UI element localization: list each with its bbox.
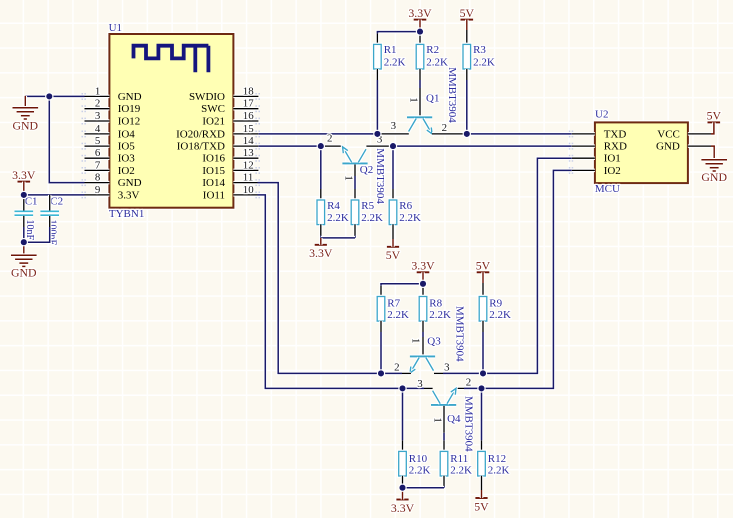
svg-text:R9: R9 <box>489 298 502 310</box>
wire 3.3V to R1 top <box>377 32 420 34</box>
wire R9 bottom to bus <box>481 321 485 332</box>
wire R1 to TXD bus <box>376 69 380 80</box>
wire 5V to R3 top <box>465 20 469 30</box>
wire R10 bottom <box>401 476 405 486</box>
svg-text:2: 2 <box>442 122 447 134</box>
svg-text:IO5: IO5 <box>118 141 136 153</box>
capacitor C1 <box>15 211 34 215</box>
svg-text:8: 8 <box>95 172 101 184</box>
power port 5V (U2 VCC) <box>707 109 722 123</box>
svg-text:3.3V: 3.3V <box>118 189 140 201</box>
wire C1 top lead <box>22 195 26 211</box>
U1 pin 4 (IO4) <box>82 123 136 140</box>
wire R4 bottom <box>319 224 323 235</box>
wire R4 top to bus <box>319 146 323 189</box>
capacitor C2 <box>40 211 59 215</box>
resistor R8 <box>419 297 427 322</box>
svg-text:2.2K: 2.2K <box>361 212 383 224</box>
svg-text:2: 2 <box>327 133 332 145</box>
U2 pin VCC <box>657 128 711 140</box>
resistor R10 <box>399 451 407 476</box>
U1 pin 6 (IO3) <box>82 147 136 164</box>
U1 pin 18 (SWDIO) <box>189 85 260 102</box>
resistor R12 <box>478 451 486 476</box>
R2 labels <box>426 44 448 69</box>
svg-text:1: 1 <box>410 338 422 343</box>
wire R3 to TXD bus <box>465 69 469 80</box>
wire 3.3V to R2 top <box>418 32 422 34</box>
transistor Q2 (MMBT3904) <box>342 147 367 164</box>
ground symbol (U1 pins 1/8) <box>13 96 39 132</box>
svg-text:10: 10 <box>243 184 254 196</box>
R1 labels <box>384 44 406 69</box>
svg-text:IO2: IO2 <box>604 165 621 177</box>
wire 5V to R9 top <box>481 272 485 283</box>
svg-text:RXD: RXD <box>604 141 627 153</box>
wire R5 bottom <box>353 224 357 235</box>
wire U1 pin11 to Q3 bus <box>258 183 403 374</box>
wire pin1 to GND junction <box>49 95 84 99</box>
U2 pin GND <box>656 141 711 153</box>
svg-text:1: 1 <box>95 85 100 97</box>
R5 labels <box>361 200 383 224</box>
svg-text:MCU: MCU <box>595 183 620 195</box>
R7 labels <box>387 298 409 322</box>
U1 logo squiggle <box>134 46 209 73</box>
svg-text:2.2K: 2.2K <box>387 309 409 321</box>
transistor Q1 (MMBT3904) <box>407 117 432 134</box>
ground symbol (capacitors) <box>11 243 37 279</box>
U1 pin 17 (SWC) <box>201 98 260 115</box>
svg-text:R7: R7 <box>387 298 400 310</box>
power port 5V (R3) <box>460 6 475 20</box>
svg-text:GND: GND <box>11 266 37 280</box>
svg-text:12: 12 <box>243 159 254 171</box>
wire U1 pin14 to Q2 emitter (RXD bus left) <box>258 144 320 148</box>
svg-text:5: 5 <box>95 135 101 147</box>
wire R7 bottom to bus <box>379 321 383 332</box>
U2 pin RXD <box>569 141 627 153</box>
wire pin8 to GND junction (vertical) <box>49 96 84 182</box>
U1 pin 13 (IO16) <box>202 147 260 164</box>
svg-text:2.2K: 2.2K <box>489 309 511 321</box>
svg-text:GND: GND <box>118 177 142 189</box>
wire Q4 base to R11 <box>442 406 446 433</box>
svg-text:2.2K: 2.2K <box>399 212 421 224</box>
power port 5V (R6 bottom) <box>386 239 401 262</box>
svg-text:3.3V: 3.3V <box>391 501 415 515</box>
svg-text:SWC: SWC <box>201 103 225 115</box>
junction R12/bus <box>477 384 485 392</box>
svg-text:2.2K: 2.2K <box>450 465 472 477</box>
svg-text:3: 3 <box>95 110 101 122</box>
U1 pin 12 (IO15) <box>202 159 260 176</box>
wire U1 pin15 to Q1 collector (TXD bus left) <box>258 132 377 136</box>
svg-text:2.2K: 2.2K <box>473 56 495 68</box>
junction R3/bus <box>463 130 471 138</box>
transistor Q4 (MMBT3904) <box>431 388 456 405</box>
resistor R4 <box>317 200 325 225</box>
svg-text:2.2K: 2.2K <box>426 56 448 68</box>
resistor R3 <box>463 44 471 69</box>
wire GND pin to ground <box>711 146 714 160</box>
svg-text:2: 2 <box>466 377 471 389</box>
svg-text:11: 11 <box>243 172 254 184</box>
resistor R6 <box>389 200 397 225</box>
svg-text:IO11: IO11 <box>203 189 225 201</box>
wire R11 bottom <box>442 476 446 486</box>
U2 pin IO2 <box>569 165 621 177</box>
junction R4/bus <box>317 142 325 150</box>
svg-text:5V: 5V <box>386 248 401 262</box>
svg-text:3.3V: 3.3V <box>411 259 435 273</box>
svg-text:13: 13 <box>243 147 254 159</box>
svg-text:15: 15 <box>243 123 254 135</box>
wire R6 top to bus <box>391 146 395 189</box>
U1 pin 3 (IO12) <box>82 110 141 127</box>
power port 3.3V (R10/R11 bottom) <box>391 488 415 515</box>
wire Q2 base to R5 <box>353 165 357 177</box>
power port 3.3V (R4/R5 bottom) <box>309 238 333 260</box>
svg-text:SWDIO: SWDIO <box>189 91 225 103</box>
power port 3.3V (capacitors) <box>12 168 36 195</box>
U2 pin IO1 <box>569 153 621 165</box>
svg-text:IO16: IO16 <box>202 153 225 165</box>
wire R8 to Q3 base <box>421 321 425 332</box>
resistor R1 <box>374 44 382 69</box>
power port 3.3V (R7/R8) <box>411 259 435 284</box>
svg-text:2.2K: 2.2K <box>384 56 406 68</box>
R4 labels <box>327 200 349 224</box>
R3 labels <box>473 44 495 69</box>
wire 3.3V to R7 top <box>381 284 423 286</box>
U1 pin 8 (GND) <box>82 172 142 189</box>
wire 3.3V to U1 pin 9 <box>24 193 85 197</box>
power port 5V (R12 bottom) <box>474 490 489 513</box>
wire Q3 collector to U2 IO1 <box>434 372 443 376</box>
wire Q2 collector to U2 RXD (RXD bus right) <box>366 144 392 148</box>
junction R6/bus <box>389 142 397 150</box>
transistor Q3 (MMBT3904) <box>410 356 435 373</box>
svg-text:R1: R1 <box>384 44 397 56</box>
svg-text:MMBT3904: MMBT3904 <box>462 396 474 452</box>
svg-text:2.2K: 2.2K <box>327 212 349 224</box>
svg-text:MMBT3904: MMBT3904 <box>454 306 466 362</box>
svg-text:R11: R11 <box>450 453 468 465</box>
svg-text:IO19: IO19 <box>118 103 141 115</box>
R6 labels <box>399 200 421 224</box>
IC U2 body <box>595 122 688 183</box>
svg-text:R10: R10 <box>409 453 428 465</box>
wire R6 bottom to 5V <box>391 224 395 239</box>
svg-text:3.3V: 3.3V <box>309 246 333 260</box>
svg-text:Q3: Q3 <box>427 336 441 348</box>
wire R12 bottom to 5V <box>480 476 484 490</box>
wire 5V to VCC pin <box>711 122 714 133</box>
junction 3.3V / C1 <box>20 191 28 199</box>
svg-text:6: 6 <box>95 147 101 159</box>
R8 labels <box>429 298 451 322</box>
svg-text:U2: U2 <box>595 109 608 121</box>
wire 3.3V to R8 top <box>421 284 425 286</box>
svg-text:MMBT3904: MMBT3904 <box>374 148 386 204</box>
svg-text:1: 1 <box>407 97 419 102</box>
junction 3.3V R7/R8 <box>419 280 427 288</box>
svg-text:1: 1 <box>431 417 443 422</box>
svg-text:1: 1 <box>343 175 355 180</box>
wire R10 top to bus <box>401 388 405 440</box>
svg-text:IO4: IO4 <box>118 128 136 140</box>
R12 labels <box>488 453 510 477</box>
svg-text:R8: R8 <box>429 298 442 310</box>
U1 pin 7 (IO2) <box>82 159 135 176</box>
resistor R11 <box>440 451 448 476</box>
svg-text:2.2K: 2.2K <box>429 309 451 321</box>
svg-text:7: 7 <box>95 159 101 171</box>
U1 pin 16 (IO21) <box>202 110 260 127</box>
wire U1 pin10 to Q4 bus <box>258 195 425 389</box>
svg-text:U1: U1 <box>109 22 122 34</box>
junction R10/R11 bottom <box>398 484 406 492</box>
R10 labels <box>409 453 431 477</box>
svg-text:9: 9 <box>95 184 100 196</box>
svg-text:GND: GND <box>701 170 727 184</box>
resistor R2 <box>416 44 424 69</box>
svg-text:14: 14 <box>243 135 254 147</box>
junction C1/C2 bottom <box>20 238 28 246</box>
U2 pin TXD <box>569 128 627 140</box>
svg-text:3: 3 <box>391 120 397 132</box>
power port 5V (R9) <box>476 259 491 273</box>
svg-text:VCC: VCC <box>657 128 680 140</box>
wire Q4 emitter to U2 IO2 <box>455 387 481 391</box>
svg-text:IO3: IO3 <box>118 153 136 165</box>
svg-text:IO1: IO1 <box>604 153 621 165</box>
U1 pin 14 (IO18/TXD) <box>177 135 260 152</box>
svg-text:R2: R2 <box>426 44 439 56</box>
R9 labels <box>489 298 511 322</box>
svg-text:IO12: IO12 <box>118 115 141 127</box>
wire C2 top lead <box>48 195 52 211</box>
resistor R7 <box>377 297 385 322</box>
svg-text:5V: 5V <box>474 499 489 513</box>
U1 pin 9 (3.3V) <box>82 184 140 201</box>
svg-text:IO18/TXD: IO18/TXD <box>177 141 225 153</box>
svg-text:2.2K: 2.2K <box>488 465 510 477</box>
svg-text:4: 4 <box>95 123 101 135</box>
svg-text:2.2K: 2.2K <box>409 465 431 477</box>
junction R1/bus <box>373 130 381 138</box>
wire R4-R5 bottom joining <box>321 236 355 240</box>
resistor R5 <box>351 200 359 225</box>
wire R10-R11 joining <box>403 486 445 490</box>
svg-text:3: 3 <box>417 378 423 390</box>
svg-text:Q1: Q1 <box>426 92 439 104</box>
svg-text:IO14: IO14 <box>202 177 225 189</box>
junction R10/bus <box>398 384 406 392</box>
junction pins 1/8 GND <box>45 92 53 100</box>
svg-text:TYBN1: TYBN1 <box>109 208 144 220</box>
svg-text:Q2: Q2 <box>360 164 373 176</box>
svg-text:R6: R6 <box>399 200 412 212</box>
junction R7/bus <box>377 369 385 377</box>
svg-text:GND: GND <box>118 91 142 103</box>
wire R12 top to bus <box>480 388 484 440</box>
U1 pin 5 (IO5) <box>82 135 136 152</box>
junction 3.3V R1/R2 <box>416 27 424 35</box>
svg-text:3.3V: 3.3V <box>408 6 432 20</box>
power port 3.3V (R1/R2) <box>408 6 432 32</box>
svg-text:R12: R12 <box>488 453 506 465</box>
svg-text:3.3V: 3.3V <box>12 168 36 182</box>
svg-text:IO15: IO15 <box>202 165 225 177</box>
U1 pin 1 (GND) <box>82 85 142 102</box>
svg-text:R5: R5 <box>361 200 374 212</box>
svg-text:5V: 5V <box>460 6 475 20</box>
svg-text:Q4: Q4 <box>447 413 461 425</box>
svg-text:IO21: IO21 <box>202 115 225 127</box>
svg-text:IO2: IO2 <box>118 165 135 177</box>
svg-text:2: 2 <box>95 98 100 110</box>
IC U1 body <box>109 34 233 208</box>
svg-text:18: 18 <box>243 85 254 97</box>
wire Q1 emitter to R3 node and U2 TXD <box>432 132 463 136</box>
svg-text:MMBT3904: MMBT3904 <box>446 67 458 123</box>
svg-text:C2: C2 <box>50 195 63 207</box>
svg-text:IO20/RXD: IO20/RXD <box>176 128 225 140</box>
wire junction to ground stem <box>25 95 49 99</box>
svg-text:GND: GND <box>656 141 680 153</box>
svg-text:5V: 5V <box>707 109 722 123</box>
svg-text:16: 16 <box>243 110 254 122</box>
svg-text:5V: 5V <box>476 259 491 273</box>
svg-text:TXD: TXD <box>604 128 627 140</box>
junction R9/bus <box>479 369 487 377</box>
U1 pin 10 (IO11) <box>203 184 260 201</box>
U1 pin 11 (IO14) <box>202 172 260 189</box>
wire R2 to Q1 base <box>418 69 422 80</box>
ground symbol (U2) <box>701 148 727 184</box>
svg-text:GND: GND <box>13 118 39 132</box>
wire C2 bottom lead <box>48 216 52 227</box>
svg-text:R3: R3 <box>473 44 486 56</box>
svg-text:17: 17 <box>243 98 254 110</box>
resistor R9 <box>479 297 487 322</box>
U1 pin 2 (IO19) <box>82 98 141 115</box>
wire C1 bottom lead <box>22 216 26 227</box>
R11 labels <box>450 453 472 477</box>
svg-text:R4: R4 <box>327 200 340 212</box>
U1 pin 15 (IO20/RXD) <box>176 123 260 140</box>
